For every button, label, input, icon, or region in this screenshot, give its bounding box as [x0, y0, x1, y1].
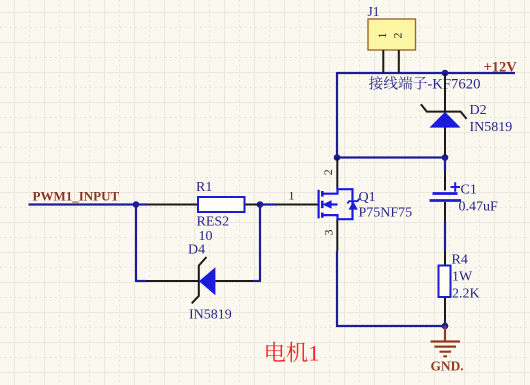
- svg-text:J1: J1: [368, 4, 380, 19]
- mosfet Q1 drain pin (pin 2): [336, 158, 338, 190]
- diode D2 triangle: [429, 112, 460, 128]
- junction dot gate node: [257, 201, 264, 208]
- mosfet Q1 drain/source/bulk connections: [322, 189, 352, 219]
- wire PWM1 input: [29, 203, 137, 205]
- svg-text:0.47uF: 0.47uF: [459, 200, 499, 215]
- svg-text:R1: R1: [196, 180, 212, 195]
- ground symbol stub: [444, 326, 446, 342]
- svg-text:1: 1: [308, 341, 319, 366]
- wire rail drop to drain node: [336, 72, 338, 158]
- wire left leg to D4 cathode pin: [135, 280, 146, 282]
- svg-text:3: 3: [322, 230, 336, 236]
- resistor R4 top pin: [444, 251, 446, 266]
- wire +12V rail: [337, 72, 515, 74]
- connector J1 body: [368, 19, 416, 50]
- svg-text:1: 1: [289, 189, 295, 203]
- mosfet Q1 body diode triangle: [349, 202, 358, 210]
- svg-text:-KF7620: -KF7620: [427, 77, 480, 93]
- wire bottom horizontal to gnd node: [336, 325, 445, 327]
- svg-text:C1: C1: [461, 183, 477, 198]
- diode D4 cathode pin: [146, 280, 199, 282]
- wire R4 bottom to gnd node: [444, 321, 446, 327]
- capacitor C1 plus sign: [451, 182, 461, 191]
- pin 2 lead of J1: [398, 50, 400, 73]
- diode D2 cathode pin: [444, 73, 446, 111]
- svg-text:RES2: RES2: [197, 215, 230, 230]
- mosfet Q1 channel bars: [321, 191, 324, 218]
- wire C1 bottom to R4 top: [444, 222, 446, 252]
- diode D2 schottky cathode bar: [421, 104, 467, 119]
- junction dot PWM node: [133, 201, 140, 208]
- junction dot rail / D2: [442, 70, 449, 77]
- resistor R1 body: [198, 197, 245, 212]
- svg-text:IN5819: IN5819: [189, 308, 232, 323]
- svg-text:+12V: +12V: [484, 60, 518, 76]
- diode D2 anode pin: [444, 128, 446, 157]
- resistor R4 body: [439, 266, 451, 298]
- junction dot drain node left: [334, 154, 341, 161]
- svg-text:Q1: Q1: [359, 190, 376, 205]
- wire Q1 source down: [336, 251, 338, 326]
- mosfet Q1 bulk arrow: [322, 200, 331, 209]
- svg-text:R4: R4: [452, 253, 468, 268]
- ground symbol bars: [431, 342, 461, 357]
- mosfet Q1 source pin (pin 3): [336, 219, 338, 251]
- diode D4 triangle: [199, 267, 216, 295]
- junction dot drain node right (D2/C1): [442, 154, 449, 161]
- svg-text:D4: D4: [188, 243, 205, 258]
- wire gate node to Q1 gate pin: [260, 203, 277, 205]
- mosfet Q1 gate pin (pin 1): [277, 204, 319, 206]
- capacitor C1 top plate: [433, 192, 458, 195]
- comment text 接线端子-KF7620: [369, 76, 480, 92]
- svg-text:2: 2: [390, 33, 404, 39]
- resistor R4 bottom pin: [444, 297, 446, 321]
- capacitor C1 bottom pin: [444, 202, 446, 222]
- junction dot ground node: [442, 323, 449, 330]
- text 电机1 (Motor 1): [266, 341, 319, 366]
- wire drain node horizontal: [337, 156, 445, 158]
- svg-text:IN5819: IN5819: [470, 120, 513, 135]
- wire node to C1 top: [444, 158, 446, 172]
- wire pwm node to R1 left pin: [136, 203, 148, 205]
- wire right leg up: [259, 205, 261, 283]
- resistor R1 right pin: [245, 204, 260, 206]
- capacitor C1 bottom plate: [430, 199, 462, 202]
- pin 1 lead of J1: [382, 50, 384, 73]
- svg-text:D2: D2: [470, 103, 487, 118]
- svg-text:1W: 1W: [452, 270, 473, 285]
- wire pwm node down left leg: [135, 204, 137, 282]
- mosfet Q1 gate bar: [318, 190, 320, 219]
- wire D4 anode pin to right leg: [253, 280, 260, 282]
- diode D4 anode pin: [216, 280, 254, 282]
- resistor R1 left pin: [148, 204, 198, 206]
- mosfet Q1 body diode cathode bar: [347, 199, 359, 204]
- svg-text:GND.: GND.: [431, 359, 464, 374]
- svg-text:1: 1: [375, 33, 389, 39]
- svg-text:P75NF75: P75NF75: [359, 206, 413, 221]
- capacitor C1 top pin: [444, 171, 446, 191]
- svg-text:2: 2: [321, 169, 335, 175]
- svg-text:2.2K: 2.2K: [452, 287, 480, 302]
- diode D4 schottky cathode bar: [192, 257, 207, 303]
- svg-text:PWM1_INPUT: PWM1_INPUT: [33, 189, 120, 204]
